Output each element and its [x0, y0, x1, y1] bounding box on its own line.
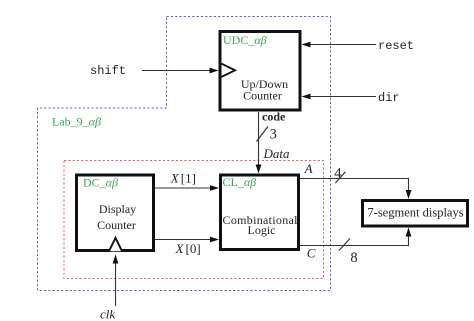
svg-text:A: A: [304, 161, 313, 176]
svg-text:Counter: Counter: [97, 218, 136, 232]
svg-text:Display: Display: [99, 202, 136, 216]
svg-text:Counter: Counter: [243, 89, 282, 103]
svg-text:4: 4: [334, 165, 342, 181]
svg-text:8: 8: [350, 250, 357, 266]
svg-text:Lab_9_αβ: Lab_9_αβ: [52, 115, 101, 129]
svg-text:UDC_αβ: UDC_αβ: [223, 33, 267, 47]
svg-text:X: X: [170, 171, 180, 186]
svg-text:[1]: [1]: [181, 171, 196, 186]
svg-text:code: code: [262, 110, 286, 124]
svg-text:3: 3: [270, 126, 277, 142]
svg-text:shift: shift: [90, 64, 126, 78]
svg-text:X: X: [175, 241, 185, 256]
svg-text:clk: clk: [100, 307, 115, 321]
svg-text:[0]: [0]: [186, 241, 201, 256]
svg-text:Logic: Logic: [248, 223, 276, 237]
svg-text:C: C: [307, 246, 316, 261]
svg-text:CL_αβ: CL_αβ: [223, 175, 257, 189]
svg-text:reset: reset: [378, 39, 414, 53]
svg-text:dir: dir: [378, 91, 400, 105]
svg-text:Data: Data: [263, 146, 291, 161]
svg-text:DC_αβ: DC_αβ: [83, 176, 118, 190]
svg-text:7-segment displays: 7-segment displays: [367, 206, 463, 220]
